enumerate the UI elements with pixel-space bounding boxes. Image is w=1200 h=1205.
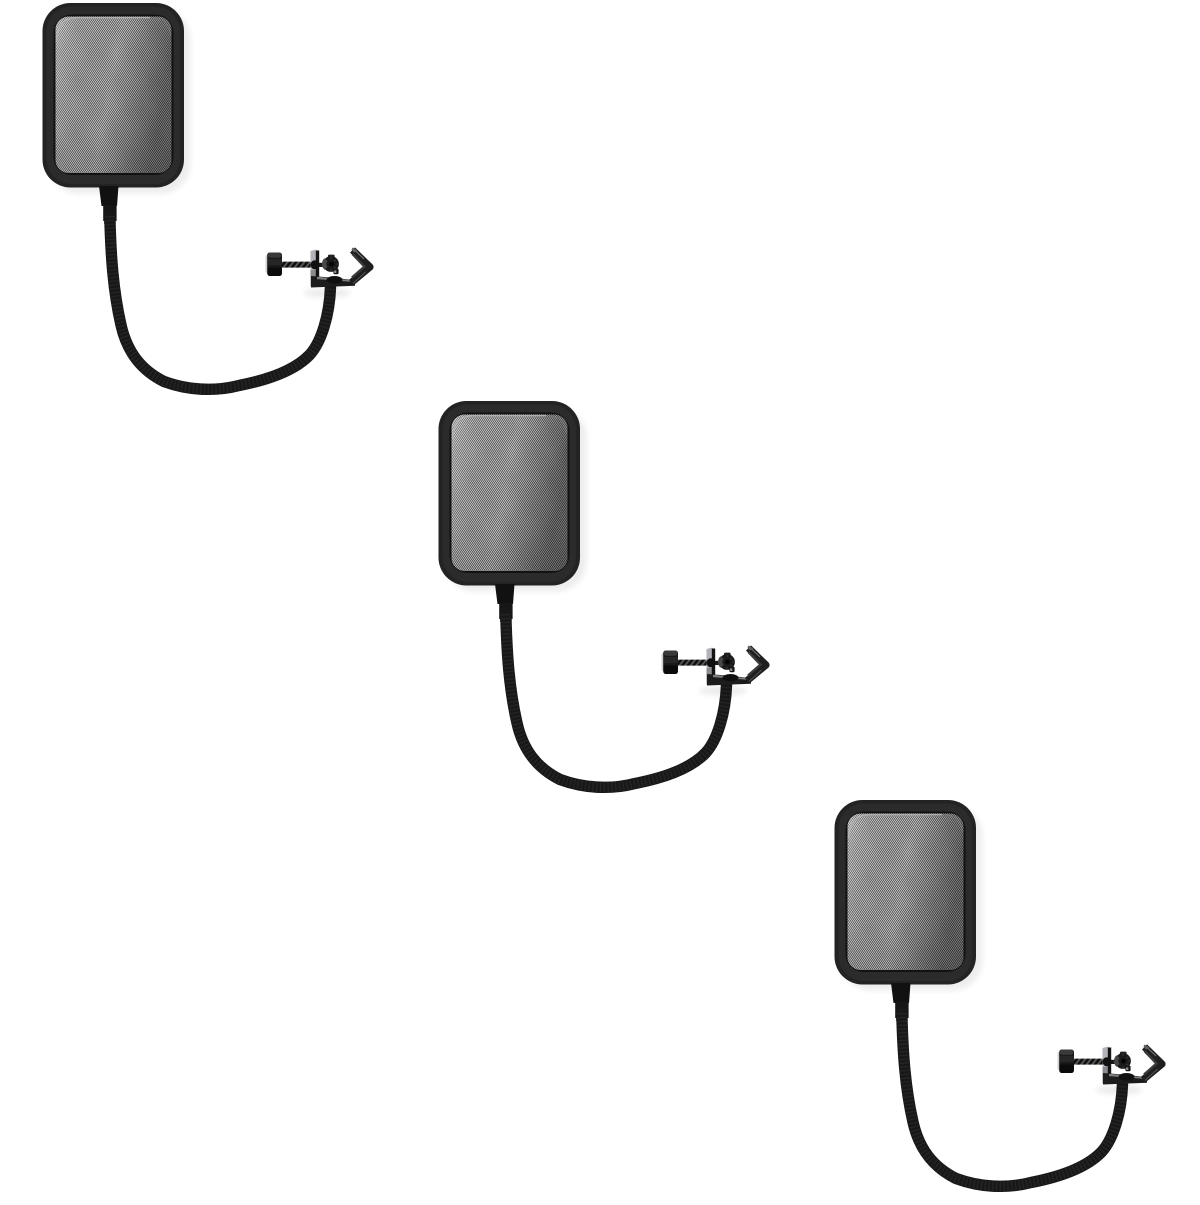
pop filter unit 3 (bottom-right) — [835, 800, 1163, 1186]
pop filter unit 2 (middle) — [439, 401, 767, 787]
pop filter unit 1 (top-left) — [43, 3, 371, 389]
